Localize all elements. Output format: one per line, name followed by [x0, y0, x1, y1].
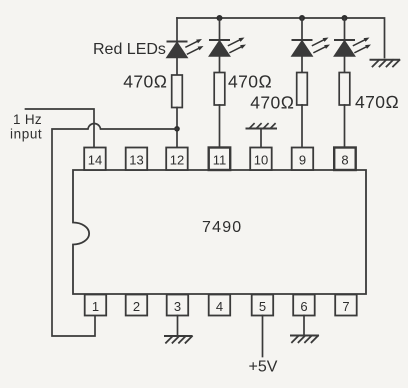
svg-text:1 Hz: 1 Hz [13, 112, 42, 127]
resistor R2 470ohm [214, 73, 225, 106]
wire pin 5 to +5V [262, 316, 264, 357]
wire rail to LED D2 [219, 18, 221, 40]
wire resistor R2 to pin 11 [219, 105, 221, 148]
IC U1 7490 body (with notch) [73, 170, 366, 294]
svg-text:1: 1 [92, 299, 99, 314]
wire LED D3 to resistor R3 [301, 56, 303, 72]
wire ground to pin 10 [260, 129, 262, 149]
wire rail to LED D1 [176, 18, 178, 42]
wire rail to LED D4 [344, 18, 346, 40]
wire LED D2 to resistor R2 [219, 56, 221, 72]
pin 14 box [84, 148, 106, 171]
LED D1 [167, 39, 204, 58]
pin 1 box [85, 295, 107, 316]
wire 1 Hz input to pin 14 [26, 109, 95, 148]
pin 4 box [209, 295, 231, 316]
ground (below pin 3) [165, 336, 192, 343]
svg-text:14: 14 [88, 153, 102, 168]
ground (below pin 6) [291, 336, 318, 343]
svg-text:13: 13 [129, 153, 143, 168]
wire LED D4 to resistor R4 [344, 56, 346, 72]
svg-text:9: 9 [299, 153, 306, 168]
pin 6 box [293, 295, 315, 316]
ground (top right) [371, 60, 400, 67]
wire pin 12 node to pin 1 (with hop over pin-14 wire) [52, 123, 177, 336]
pin 12 box [166, 148, 188, 171]
svg-text:4: 4 [216, 299, 223, 314]
resistor R3 470ohm [297, 73, 308, 106]
ground (above pin 10, inverted) [247, 124, 277, 129]
svg-text:+5V: +5V [249, 359, 278, 376]
svg-text:3: 3 [174, 299, 181, 314]
svg-text:470Ω: 470Ω [250, 93, 294, 113]
wire rail to LED D3 [301, 18, 303, 40]
pin 9 box [292, 148, 314, 171]
wire LED D1 to resistor R1 [176, 58, 178, 75]
LED D2 [209, 38, 246, 57]
svg-text:7490: 7490 [202, 219, 242, 236]
svg-text:470Ω: 470Ω [228, 72, 272, 92]
svg-text:8: 8 [341, 153, 348, 168]
wire pin 6 to ground [303, 316, 305, 336]
wire resistor R4 to pin 8 [344, 105, 346, 148]
node junction dot rail-pin11 [217, 15, 223, 21]
node junction dot pin12 [174, 126, 180, 132]
pin 10 box [250, 148, 272, 171]
pin 8 box [334, 148, 356, 171]
svg-text:6: 6 [300, 299, 307, 314]
pin 2 box [126, 295, 148, 316]
svg-text:11: 11 [213, 153, 227, 168]
node junction dot rail-pin8 [342, 15, 348, 21]
resistor R1 470ohm [172, 75, 183, 108]
wire top ground rail [177, 18, 385, 58]
pin 5 box [252, 295, 274, 316]
svg-text:470Ω: 470Ω [123, 72, 167, 92]
resistor R4 470ohm [339, 73, 350, 106]
pin 13 box [126, 148, 148, 171]
svg-text:Red LEDs: Red LEDs [93, 41, 166, 58]
wire pin 3 to ground [177, 316, 179, 336]
svg-text:12: 12 [170, 153, 184, 168]
wire resistor R1 to pin 12 [176, 108, 178, 148]
svg-text:470Ω: 470Ω [355, 92, 399, 112]
svg-text:5: 5 [259, 299, 266, 314]
svg-text:10: 10 [254, 153, 268, 168]
pin 3 box [167, 295, 189, 316]
node junction dot rail-pin9 [299, 15, 305, 21]
svg-text:2: 2 [133, 299, 140, 314]
LED D4 [334, 38, 371, 57]
wire resistor R3 to pin 9 [301, 105, 303, 148]
svg-text:7: 7 [342, 299, 349, 314]
svg-text:input: input [10, 127, 42, 142]
LED D3 [292, 38, 331, 57]
pin 11 box [209, 148, 231, 171]
pin 7 box [335, 295, 357, 316]
